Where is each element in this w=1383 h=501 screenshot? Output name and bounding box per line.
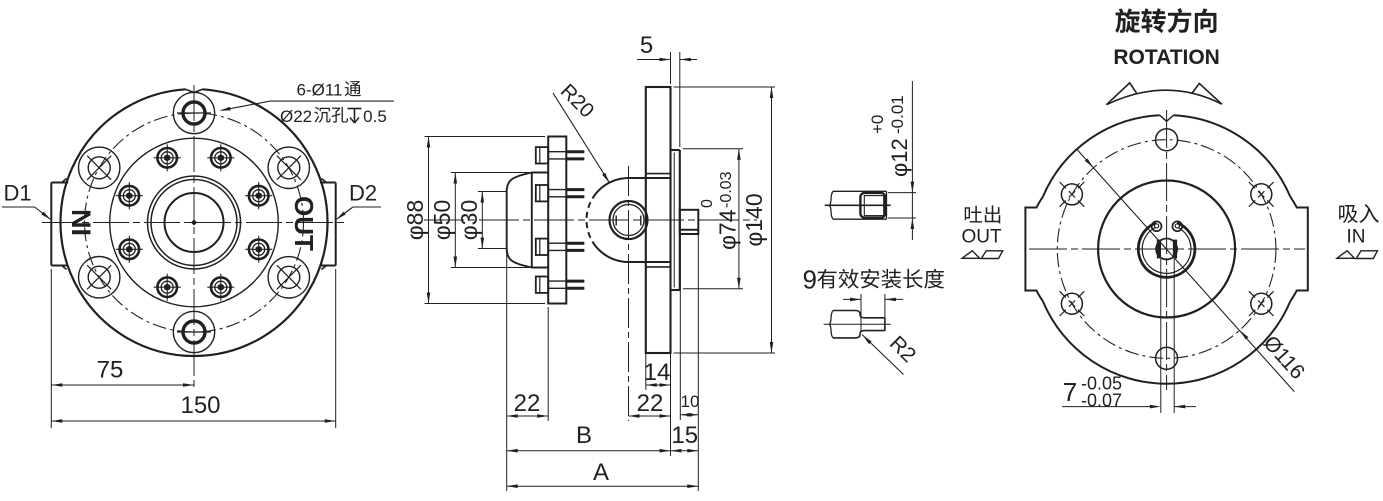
svg-text:-0.01: -0.01 [888,95,907,134]
svg-text:OUT: OUT [289,196,319,251]
svg-text:150: 150 [180,392,220,419]
svg-text:9: 9 [803,265,817,295]
svg-text:φ88: φ88 [402,200,428,241]
svg-text:5: 5 [640,32,653,59]
svg-text:10: 10 [681,392,700,411]
svg-text:B: B [576,422,592,449]
svg-text:D1: D1 [3,181,31,206]
svg-text:22: 22 [637,390,664,417]
svg-text:15: 15 [671,422,698,449]
svg-text:-0.07: -0.07 [1081,391,1122,411]
svg-text:Ø22: Ø22 [280,107,312,126]
svg-text:-0.03: -0.03 [718,171,735,208]
svg-text:φ50: φ50 [429,200,455,241]
svg-text:φ140: φ140 [741,193,767,246]
svg-text:14: 14 [644,359,671,386]
svg-text:φ74: φ74 [715,209,741,250]
svg-text:0: 0 [699,199,716,208]
svg-text:IN: IN [67,209,97,236]
svg-text:+0: +0 [868,115,887,134]
svg-text:IN: IN [1347,227,1366,248]
svg-text:A: A [593,459,609,486]
svg-text:φ30: φ30 [456,200,482,241]
svg-text:22: 22 [514,390,541,417]
svg-text:75: 75 [97,357,124,384]
svg-text:D2: D2 [349,181,377,206]
svg-text:φ12: φ12 [887,138,912,177]
svg-text:OUT: OUT [961,227,1002,248]
svg-text:ROTATION: ROTATION [1113,46,1220,69]
svg-text:7: 7 [1063,377,1077,407]
svg-text:6-Ø11: 6-Ø11 [297,81,343,100]
svg-text:0.5: 0.5 [363,107,387,126]
